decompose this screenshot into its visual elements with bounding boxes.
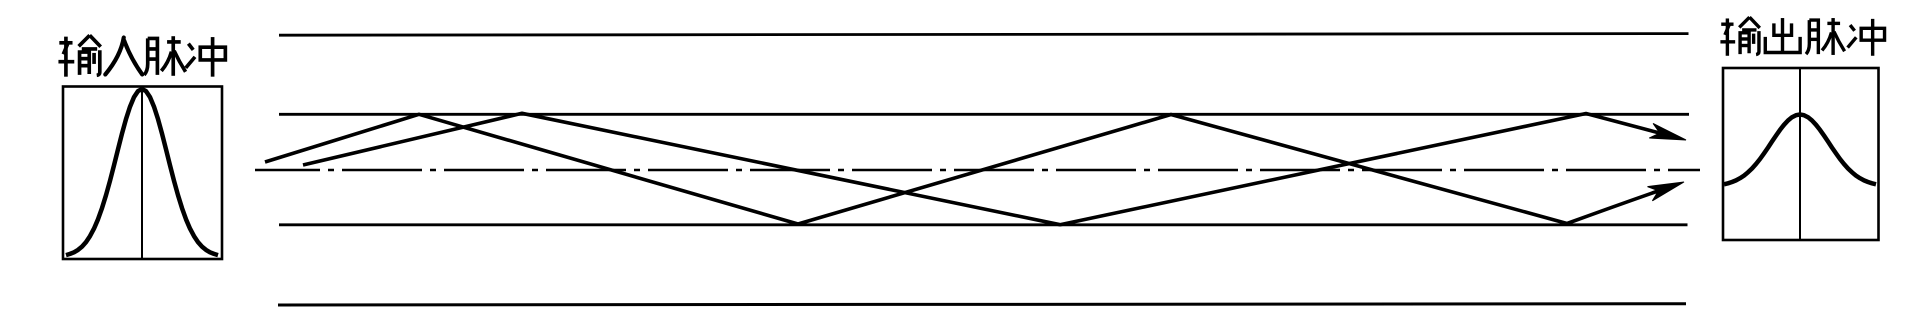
ray 2 arrowhead — [1649, 124, 1686, 141]
input pulse box — [63, 87, 222, 260]
glyph 冲 (input) — [186, 37, 226, 77]
ray 2 (shallow zigzag mode) — [303, 113, 1660, 224]
ray 1 arrowhead — [1648, 182, 1685, 201]
glyph 脉 (output) — [1806, 18, 1845, 55]
fiber top cladding line — [279, 34, 1689, 36]
glyph 脉 (input) — [144, 36, 185, 76]
fiber bottom cladding line — [278, 304, 1686, 305]
glyph 冲 (output) — [1848, 19, 1885, 56]
label "输入脉冲" (input pulse) — [58, 35, 225, 76]
fiber axis (dash-dot center line) — [255, 169, 1700, 172]
output box center line — [1799, 68, 1801, 240]
input pulse curve — [66, 89, 218, 255]
glyph 输 (output) — [1720, 17, 1759, 56]
glyph 出 (output) — [1765, 18, 1800, 52]
output pulse box — [1723, 68, 1879, 240]
fiber upper core boundary — [279, 113, 1689, 116]
input box center line — [141, 87, 143, 260]
ray 1 (steep zigzag mode) — [265, 114, 1658, 224]
output pulse curve — [1724, 115, 1876, 185]
fiber lower core boundary — [279, 223, 1688, 226]
glyph 入 (input) — [105, 38, 142, 75]
glyph 输 (input) — [58, 35, 100, 76]
label "输出脉冲" (output pulse) — [1720, 17, 1884, 56]
